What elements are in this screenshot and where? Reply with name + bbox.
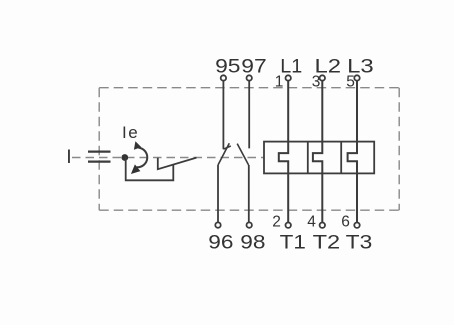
heater cell divider 1 [307,142,309,174]
heater cell divider 2 [340,142,342,174]
svg-text:4: 4 [307,213,316,230]
svg-text:1: 1 [275,73,284,90]
svg-text:L1: L1 [280,55,302,77]
adjustment curved arrow [137,148,148,168]
enclosure dashed boundary bottom edge [99,209,399,211]
svg-text:5: 5 [346,73,355,90]
terminal circle 97 [247,75,252,80]
NC contact blade 95-96 [218,143,229,165]
enclosure dashed boundary left edge [98,88,100,211]
terminal circle L2 [320,75,325,80]
svg-text:T2: T2 [313,232,341,254]
terminal circle T1 [286,223,291,228]
enclosure dashed boundary right edge [398,88,400,211]
svg-text:3: 3 [312,73,321,90]
thermal actuator bar top [88,151,111,153]
terminal circle 98 [247,222,252,227]
svg-text:Ie: Ie [122,123,139,142]
enclosure dashed boundary top edge [99,87,399,89]
NO contact blade 97-98 [237,144,248,165]
wire 98 down [248,165,250,222]
wire L3-T3 with heater element 3 [348,81,357,222]
thermal actuator bar bottom [88,161,111,163]
wire 96 down [217,165,219,222]
svg-text:96: 96 [208,232,233,254]
terminal circle T3 [354,223,359,228]
terminal circle L1 [286,75,291,80]
wire 97 down [248,81,250,148]
svg-text:I: I [66,146,71,168]
svg-text:2: 2 [272,213,281,230]
trip lever [158,158,197,170]
heater assembly box [264,142,374,174]
svg-text:6: 6 [341,213,350,230]
wire L1-T1 with heater element 1 [279,81,288,222]
wire 95 down [222,81,224,149]
terminal circle L3 [354,75,359,80]
node junction dot [121,154,128,161]
trip linkage bracket [126,158,174,181]
NC contact stub [223,146,230,149]
terminal circle 95 [221,75,226,80]
svg-text:97: 97 [241,55,266,77]
terminal circle T2 [320,223,325,228]
wire L2-T2 with heater element 2 [313,81,322,222]
svg-text:T3: T3 [346,232,373,254]
svg-text:98: 98 [240,232,265,254]
svg-text:T1: T1 [280,232,306,254]
terminal circle 96 [215,222,220,227]
svg-text:95: 95 [215,55,241,77]
dashed actuator centerline [72,157,264,159]
